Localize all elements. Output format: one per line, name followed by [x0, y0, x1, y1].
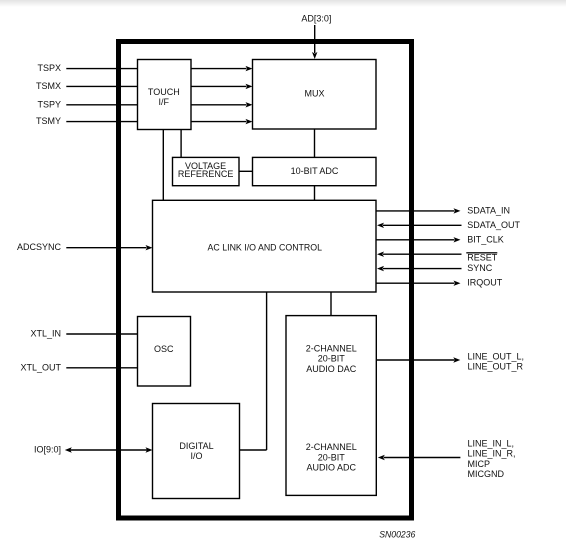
svg-text:2-CHANNEL: 2-CHANNEL [306, 442, 357, 452]
wire TOUCH to MUX arrow 4 [191, 119, 253, 124]
wire LINE_OUT from DAC with right arrowhead [376, 357, 460, 362]
svg-text:IRQOUT: IRQOUT [467, 278, 503, 288]
wire 10-BIT ADC down to AC LINK [314, 186, 316, 201]
wire TSMX to TOUCH I/F [66, 85, 137, 87]
svg-text:2-CHANNEL: 2-CHANNEL [306, 343, 357, 353]
svg-text:IO[9:0]: IO[9:0] [34, 445, 61, 455]
svg-text:SYNC: SYNC [467, 263, 493, 273]
svg-text:XTL_OUT: XTL_OUT [20, 362, 61, 372]
node LINE_IN_L / LINE_IN_R / MICP / MICGND labels [468, 438, 516, 479]
block MUX [253, 60, 377, 130]
svg-text:BIT_CLK: BIT_CLK [467, 234, 504, 244]
svg-text:20-BIT: 20-BIT [318, 354, 346, 364]
wire TSPY to TOUCH I/F [66, 104, 137, 106]
svg-text:TSPX: TSPX [37, 63, 61, 73]
block audio DAC/ADC container [286, 316, 376, 496]
wire IRQOUT out of AC LINK with right arrowhead [376, 281, 460, 286]
wire MUX down to 10-BIT ADC [314, 129, 316, 157]
label 2-CHANNEL 20-BIT AUDIO DAC [306, 343, 357, 374]
node LINE_OUT_L / LINE_OUT_R labels [468, 351, 525, 371]
wire AC LINK down to DIGITAL I/O (vertical) [266, 292, 268, 450]
block AC LINK I/O AND CONTROL [153, 200, 377, 292]
wire AC LINK down to DAC/ADC container [330, 292, 332, 316]
wire TSPX to TOUCH I/F [66, 68, 137, 70]
svg-text:MICGND: MICGND [468, 469, 505, 479]
wire TOUCH to MUX arrow 2 [191, 84, 253, 89]
block OSC [138, 317, 191, 387]
svg-text:TOUCH: TOUCH [148, 87, 180, 97]
chip outline (thick border) [119, 42, 412, 519]
svg-text:LINE_IN_L,: LINE_IN_L, [468, 438, 515, 448]
node RESET label (active low, with overline) [466, 252, 498, 262]
svg-text:DIGITAL: DIGITAL [179, 441, 213, 451]
svg-text:MICP: MICP [468, 459, 491, 469]
svg-text:LINE_OUT_L,: LINE_OUT_L, [468, 351, 525, 361]
svg-text:SN00236: SN00236 [379, 529, 415, 539]
wire XTL_OUT to OSC [66, 367, 137, 369]
svg-text:MUX: MUX [305, 89, 325, 99]
label 2-CHANNEL 20-BIT AUDIO ADC [306, 442, 357, 473]
wire TOUCH to MUX arrow 3 [191, 102, 253, 107]
wire SDATA_IN out of AC LINK with right arrowhead [376, 208, 460, 213]
svg-text:20-BIT: 20-BIT [318, 452, 346, 462]
wire XTL_IN to OSC [66, 333, 137, 335]
wire RESET into AC LINK with left arrowhead [377, 252, 462, 257]
block TOUCH I/F [138, 60, 192, 130]
svg-text:AD[3:0]: AD[3:0] [301, 14, 331, 24]
wire SDATA_OUT into AC LINK with left arrowhead [377, 223, 462, 228]
wire TOUCH to MUX arrow 1 [191, 66, 253, 71]
wire LINE_IN into ADC with left arrowhead [378, 455, 461, 460]
wire AD[3:0] into MUX with down arrowhead [312, 25, 317, 59]
svg-text:TSMX: TSMX [36, 81, 61, 91]
wire SYNC into AC LINK with left arrowhead [377, 266, 462, 271]
svg-text:I/O: I/O [190, 451, 202, 461]
block DIGITAL I/O [153, 404, 240, 499]
svg-text:I/F: I/F [159, 97, 170, 107]
svg-text:RESET: RESET [467, 252, 498, 262]
svg-text:ADCSYNC: ADCSYNC [17, 242, 62, 252]
svg-text:XTL_IN: XTL_IN [30, 329, 61, 339]
svg-text:TSPY: TSPY [37, 99, 61, 109]
wire DIGITAL I/O to AC LINK branch (horizontal) [240, 449, 267, 451]
wire ADCSYNC into AC LINK with right arrowhead [66, 245, 152, 250]
svg-text:LINE_IN_R,: LINE_IN_R, [468, 449, 516, 459]
block VOLTAGE REFERENCE [173, 157, 240, 185]
block 10-BIT ADC [253, 157, 377, 185]
svg-text:REFERENCE: REFERENCE [178, 169, 234, 179]
svg-text:SDATA_OUT: SDATA_OUT [467, 220, 520, 230]
wire TOUCH I/F down to AC LINK [162, 130, 164, 201]
svg-text:SDATA_IN: SDATA_IN [467, 205, 510, 215]
svg-text:AUDIO DAC: AUDIO DAC [306, 364, 357, 374]
wire TSMY to TOUCH I/F [66, 121, 137, 123]
svg-text:LINE_OUT_R: LINE_OUT_R [468, 362, 524, 372]
wire IO[9:0] bidirectional to DIGITAL I/O [65, 447, 153, 452]
svg-text:OSC: OSC [154, 344, 174, 354]
wire VOLTAGE REFERENCE to 10-BIT ADC [239, 170, 253, 172]
svg-text:AUDIO ADC: AUDIO ADC [306, 463, 356, 473]
svg-text:AC LINK I/O AND CONTROL: AC LINK I/O AND CONTROL [208, 242, 323, 252]
wire BIT_CLK out of AC LINK with right arrowhead [376, 237, 460, 242]
svg-text:10-BIT ADC: 10-BIT ADC [291, 166, 339, 176]
svg-text:TSMY: TSMY [36, 116, 61, 126]
wire TOUCH I/F down to VOLTAGE REFERENCE [180, 130, 182, 158]
